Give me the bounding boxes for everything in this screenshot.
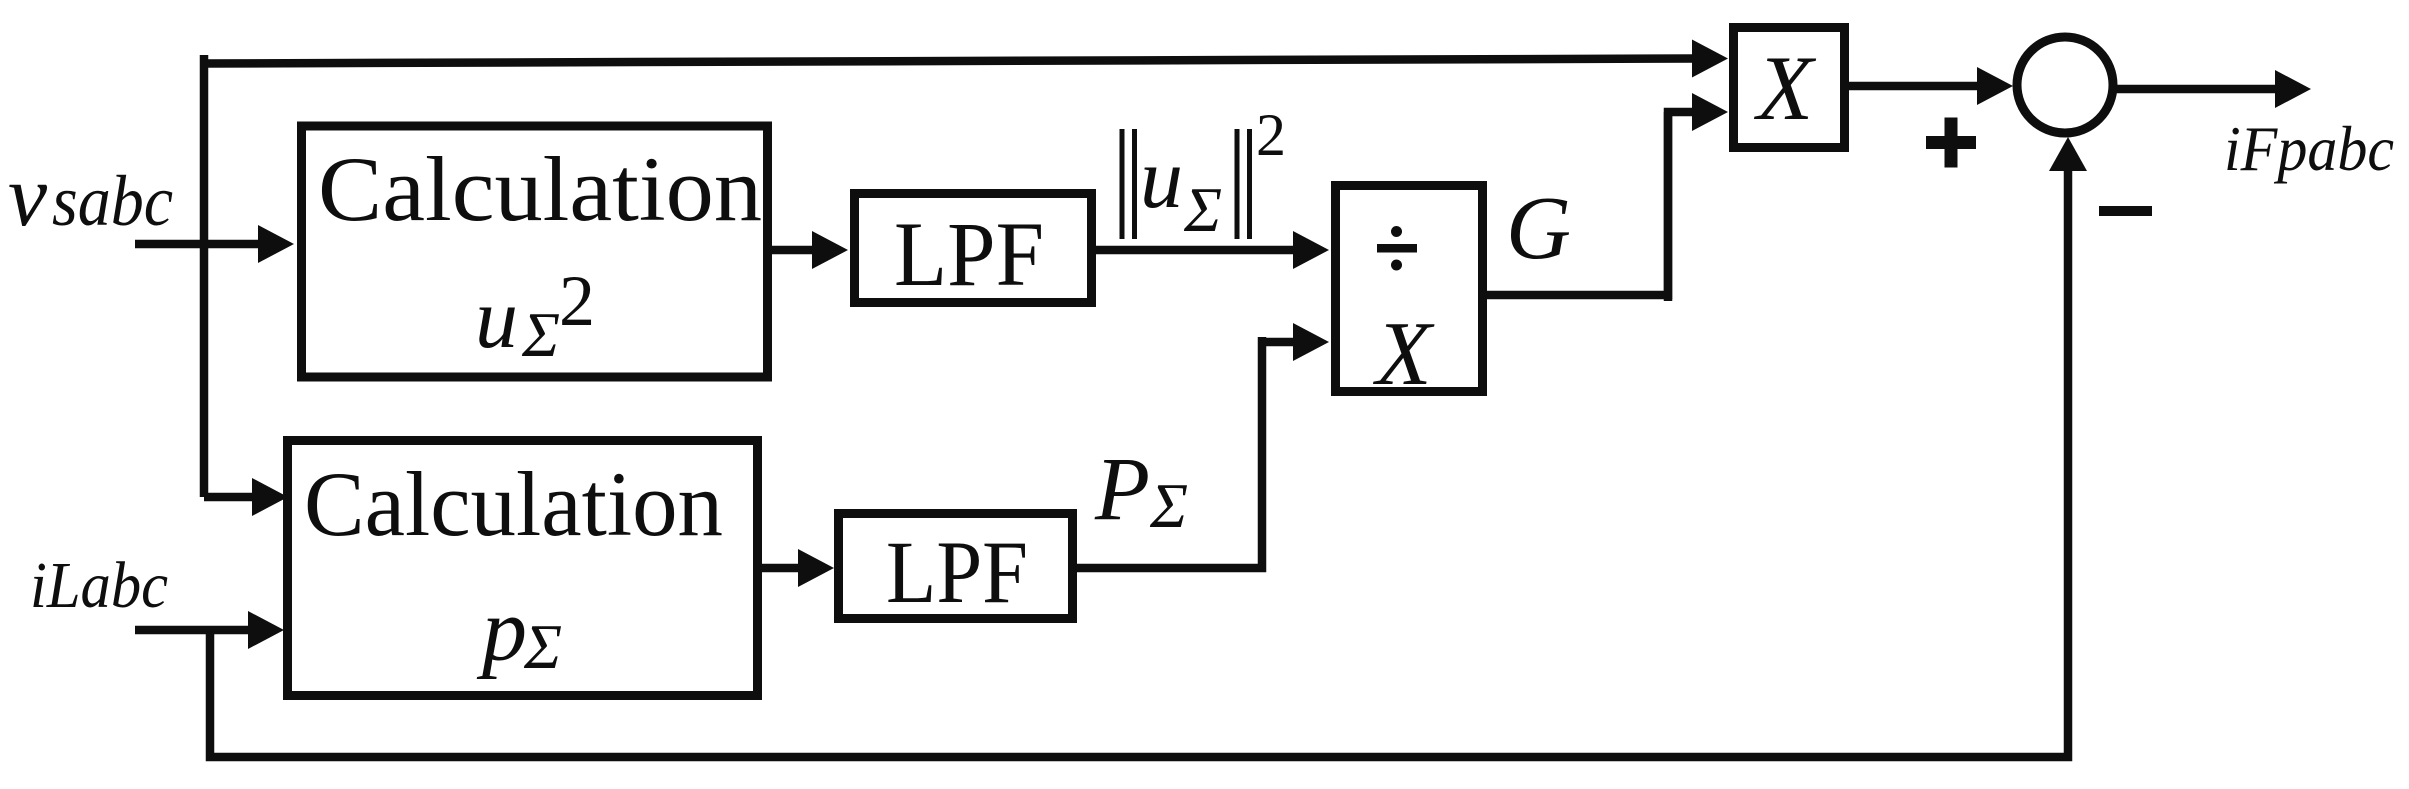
- svg-text:2: 2: [559, 261, 595, 341]
- block LPF2: [839, 514, 1073, 619]
- svg-text:X: X: [1372, 303, 1435, 404]
- block calculation pΣ: [288, 441, 758, 696]
- arrowhead calc2 into LPF2: [798, 549, 834, 587]
- label vsabc input: [8, 148, 173, 245]
- summing junction circle: [2017, 37, 2113, 133]
- arrowhead multiplier output into summing junction: [1977, 67, 2013, 105]
- block multiplier: [1734, 28, 1845, 148]
- svg-text:2: 2: [1256, 102, 1286, 168]
- arrowhead calc1 into LPF1: [812, 231, 848, 269]
- svg-text:p: p: [476, 581, 527, 680]
- wire feedback iLabc to summing junction: [210, 168, 2068, 757]
- label minus sign at summing junction: [2099, 206, 2152, 216]
- label plus sign at summing junction: [1926, 118, 1976, 168]
- svg-text:G: G: [1506, 179, 1571, 278]
- label pΣ inside lower block: [476, 581, 562, 682]
- arrowhead PΣ into divider: [1293, 323, 1329, 361]
- arrowhead top line into multiplier: [1692, 40, 1728, 78]
- wire calc2 to LPF2: [760, 564, 802, 573]
- svg-text:sabc: sabc: [52, 161, 173, 241]
- svg-text:u: u: [475, 270, 518, 366]
- wire LPF1 to divider: [1094, 246, 1296, 255]
- wire vsabc input: [135, 240, 262, 249]
- svg-text:u: u: [1140, 130, 1183, 226]
- svg-text:Σ: Σ: [521, 299, 560, 370]
- svg-text:Calculation: Calculation: [304, 453, 723, 555]
- block divider: [1336, 186, 1483, 392]
- svg-text:Calculation: Calculation: [318, 138, 762, 240]
- block LPF1: [855, 194, 1092, 303]
- label uΣ² inside upper block: [475, 261, 595, 370]
- arrowhead summing junction output: [2275, 70, 2311, 108]
- label norm uΣ squared: [1122, 102, 1286, 245]
- svg-text:iLabc: iLabc: [30, 549, 168, 622]
- block calculation uΣ²: [302, 126, 768, 377]
- arrowhead branch into calc2: [252, 478, 288, 516]
- svg-text:X: X: [1753, 37, 1817, 139]
- arrowhead LPF1 into divider: [1293, 231, 1329, 269]
- arrowhead vsabc into calc1: [258, 225, 294, 263]
- svg-text:iFpabc: iFpabc: [2224, 113, 2394, 184]
- wire multiplier to summing junction: [1847, 82, 1980, 91]
- label PΣ: [1094, 440, 1188, 541]
- svg-text:Σ: Σ: [1149, 470, 1188, 541]
- arrowhead feedback into summing junction: [2049, 137, 2087, 171]
- wire calc1 to LPF1: [770, 246, 816, 255]
- divide symbol in divider block: [1377, 226, 1417, 271]
- arrowhead G into multiplier: [1692, 93, 1728, 131]
- svg-text:P: P: [1094, 440, 1150, 539]
- wire top feedforward vsabc to multiplier: [200, 55, 209, 497]
- wire summing junction output: [2114, 85, 2278, 94]
- arrowhead iLabc into calc2: [248, 611, 284, 649]
- svg-text:Σ: Σ: [1183, 174, 1222, 245]
- svg-text:v: v: [8, 148, 48, 245]
- wire vsabc branch into lower calculation: [204, 493, 256, 502]
- svg-text:Σ: Σ: [523, 611, 562, 682]
- wire iLabc input: [135, 626, 252, 635]
- svg-text:LPF: LPF: [894, 203, 1044, 305]
- svg-text:LPF: LPF: [886, 524, 1028, 622]
- wire PΣ: LPF2 to divider lower input: [1075, 337, 1262, 568]
- wire G: divider output to multiplier: [1485, 112, 1697, 295]
